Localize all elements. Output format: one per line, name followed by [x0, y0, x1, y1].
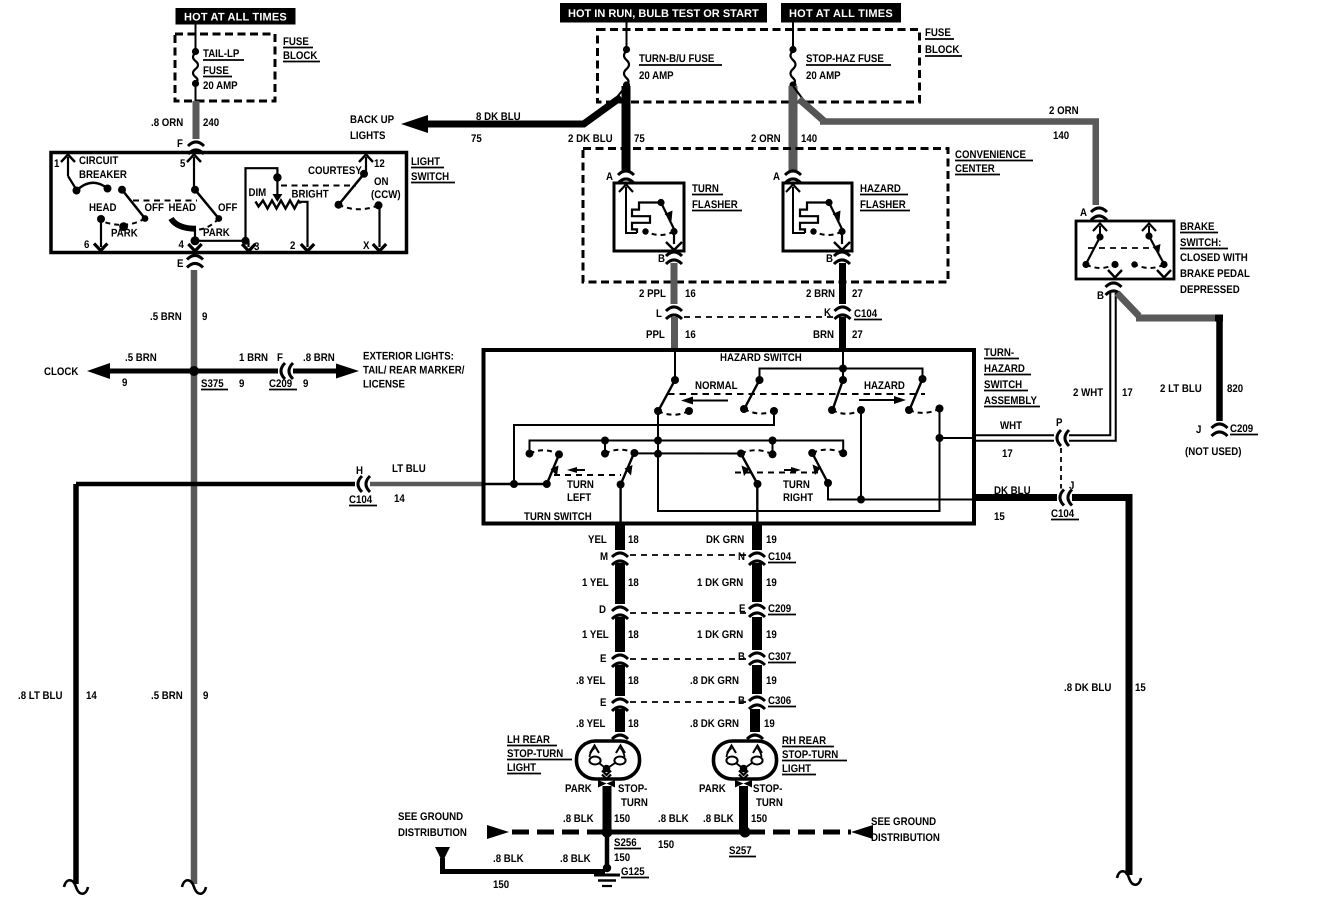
label TURN-HAZARD SWITCH ASSEMBLY [984, 347, 1040, 407]
wire .8 BLK 150 RH lamp to S257 [703, 786, 767, 830]
svg-text:.8 DK BLU: .8 DK BLU [1064, 682, 1111, 694]
wire top contact bus (S2-S3-S4) [760, 369, 923, 381]
pin 3 arrow [242, 241, 259, 253]
svg-text:TURN SWITCH: TURN SWITCH [524, 511, 592, 523]
svg-text:DK GRN: DK GRN [706, 534, 744, 546]
dashed link D-E [630, 612, 747, 614]
wire contact bus y440 [530, 441, 844, 454]
fuse STOP-HAZ FUSE 20 AMP [789, 46, 891, 89]
pin X arrow [363, 240, 386, 252]
svg-text:18: 18 [628, 629, 639, 641]
splice S375 junction [189, 366, 199, 376]
turn flasher U1 [614, 183, 684, 251]
label TURN RIGHT with arrow [735, 467, 818, 504]
svg-text:A: A [606, 171, 613, 183]
svg-text:.8 BLK: .8 BLK [560, 853, 591, 865]
svg-text:LIGHT: LIGHT [411, 156, 440, 168]
svg-text:2 ORN: 2 ORN [751, 133, 781, 145]
wire S1 pivot down and cross feed [658, 409, 940, 512]
svg-text:C209: C209 [269, 378, 292, 390]
svg-text:RH REAR: RH REAR [782, 735, 826, 747]
svg-text:STOP-HAZ FUSE: STOP-HAZ FUSE [806, 53, 884, 65]
svg-text:TURN: TURN [692, 183, 719, 195]
connector A (hazard flasher) [773, 171, 801, 183]
svg-text:19: 19 [766, 629, 777, 641]
svg-text:75: 75 [634, 133, 645, 145]
svg-text:FUSE: FUSE [203, 65, 229, 77]
LH rear stop-turn light [577, 741, 640, 779]
fuse TURN-B/U FUSE 20 AMP [623, 46, 722, 89]
convenience center dashed box [583, 149, 1033, 283]
svg-text:OFF: OFF [218, 202, 238, 214]
clock feed wire with arrows [87, 363, 359, 379]
ground G125 [594, 864, 649, 886]
ground bus solid middle [604, 813, 746, 851]
svg-text:TURN: TURN [756, 797, 783, 809]
svg-text:FUSE: FUSE [283, 36, 309, 48]
svg-text:PARK: PARK [111, 228, 138, 240]
svg-text:9: 9 [239, 378, 244, 390]
svg-text:TURN: TURN [621, 797, 648, 809]
svg-text:P: P [1056, 417, 1062, 429]
svg-text:.8 BRN: .8 BRN [303, 352, 335, 364]
wire break (tilde) .8 LT BLU [64, 880, 88, 894]
svg-text:HAZARD SWITCH: HAZARD SWITCH [720, 352, 802, 364]
wire 1 DK GRN 19 to connector E [697, 563, 777, 605]
svg-text:1 DK GRN: 1 DK GRN [697, 577, 743, 589]
svg-text:A: A [773, 171, 780, 183]
svg-text:2 DK BLU: 2 DK BLU [568, 133, 613, 145]
svg-text:LIGHTS: LIGHTS [350, 130, 386, 142]
connector B C306 [738, 694, 796, 709]
svg-text:27: 27 [852, 288, 863, 300]
turn switch TR-B [808, 449, 847, 487]
wire 2 LT BLU 820 [1117, 293, 1243, 423]
svg-text:RIGHT: RIGHT [783, 492, 813, 504]
ground branch arrow (down triangle) [435, 847, 605, 891]
svg-text:CENTER: CENTER [955, 163, 995, 175]
svg-text:C104: C104 [768, 551, 792, 563]
svg-text:M: M [600, 551, 608, 563]
svg-text:HEAD: HEAD [169, 202, 196, 214]
svg-text:D: D [599, 604, 606, 616]
svg-text:PARK: PARK [203, 227, 230, 239]
hazard switch S1 normal-left [654, 376, 693, 415]
riser TR-A right contact [772, 441, 774, 455]
pin 6 arrow [84, 219, 107, 251]
svg-text:HOT IN RUN, BULB TEST OR START: HOT IN RUN, BULB TEST OR START [568, 8, 759, 20]
wire .8 DK GRN 19 to connector B (C306) [690, 665, 777, 697]
svg-text:17: 17 [1002, 448, 1013, 460]
svg-text:ON: ON [374, 176, 389, 188]
svg-text:9: 9 [203, 690, 208, 702]
lamp connector RH [747, 732, 763, 740]
svg-text:BLOCK: BLOCK [283, 50, 317, 62]
ground bus dashed left [487, 825, 604, 839]
hazard flasher U2 [783, 183, 852, 251]
wire .8 BLK 150 LH lamp to S256 [563, 786, 630, 830]
svg-text:EXTERIOR LIGHTS:: EXTERIOR LIGHTS: [363, 351, 454, 363]
svg-text:FUSE: FUSE [925, 27, 951, 39]
brake switch box [1076, 221, 1174, 279]
svg-text:TURN: TURN [783, 479, 810, 491]
connector M [600, 550, 629, 565]
svg-text:DISTRIBUTION: DISTRIBUTION [398, 827, 467, 839]
svg-text:1 YEL: 1 YEL [582, 577, 609, 589]
svg-text:.8 LT BLU: .8 LT BLU [18, 690, 63, 702]
wire header to stop-haz fuse [792, 23, 794, 49]
wire 2 PPL 16 (grey) [639, 263, 696, 305]
pin 5 arrow [180, 155, 201, 191]
svg-text:18: 18 [628, 534, 639, 546]
fuse block (left) dashed box [175, 34, 275, 101]
svg-text:ASSEMBLY: ASSEMBLY [984, 395, 1037, 407]
svg-text:19: 19 [764, 718, 775, 730]
svg-text:27: 27 [852, 329, 863, 341]
svg-text:SEE GROUND: SEE GROUND [398, 811, 463, 823]
wire from header to fuse [195, 25, 197, 51]
svg-text:F: F [277, 352, 283, 364]
svg-text:2 PPL: 2 PPL [639, 288, 666, 300]
svg-text:1 BRN: 1 BRN [239, 352, 268, 364]
fuse TAIL-LP FUSE 20 AMP [192, 48, 244, 101]
connector P [1054, 417, 1069, 447]
wire 2 BRN 27 [806, 263, 863, 305]
svg-text:9: 9 [303, 378, 308, 390]
svg-text:PARK: PARK [565, 783, 592, 795]
svg-text:14: 14 [86, 690, 98, 702]
circuit breaker [68, 155, 127, 195]
svg-text:C209: C209 [1230, 423, 1253, 435]
svg-text:PPL: PPL [646, 329, 665, 341]
connector J C104 [1051, 480, 1079, 520]
node BRN junction [839, 365, 847, 373]
wire pin3 to dimmer wiper [246, 168, 278, 241]
dashed link E-B (C307) [630, 658, 747, 660]
wire S2 alt to turn-left feed [514, 411, 774, 484]
svg-text:FLASHER: FLASHER [692, 199, 738, 211]
svg-text:.8 ORN: .8 ORN [151, 117, 183, 129]
connector D [599, 604, 629, 619]
label BRAKE SWITCH [1180, 221, 1250, 296]
wire .5 BRN 9 vertical (grey) [150, 270, 208, 884]
svg-text:C307: C307 [768, 651, 791, 663]
exterior lights label [363, 351, 464, 391]
wire 1 DK GRN 19 to connector B (C307) [697, 617, 777, 653]
svg-text:9: 9 [202, 311, 207, 323]
svg-text:DK BLU: DK BLU [994, 485, 1031, 497]
svg-text:S375: S375 [201, 378, 224, 390]
svg-text:150: 150 [658, 839, 674, 851]
svg-text:HOT AT ALL TIMES: HOT AT ALL TIMES [789, 8, 893, 20]
dashed link P-J [1060, 448, 1062, 489]
wire YEL from TL-B pivot [619, 485, 621, 523]
svg-text:E: E [600, 697, 606, 709]
wire DK GRN 19 to connector N [706, 523, 777, 552]
svg-text:16: 16 [685, 329, 696, 341]
label HAZARD FLASHER [860, 183, 910, 211]
svg-text:BRAKE: BRAKE [1180, 221, 1214, 233]
wire .8 YEL 18 to LH lamp [576, 709, 639, 734]
ground bus dashed right [748, 825, 873, 839]
node WHT tee [936, 434, 944, 442]
brake switch connector B [1097, 283, 1122, 302]
wire 1 YEL 18 to connector E2 [582, 617, 639, 653]
wire .8 YEL 18 to connector E3 [576, 665, 639, 697]
svg-text:A: A [1080, 207, 1087, 219]
wire 2 WHT 17 (hollow) [975, 293, 1133, 460]
svg-text:.8 BLK: .8 BLK [493, 853, 524, 865]
svg-text:LEFT: LEFT [567, 492, 591, 504]
svg-text:LH REAR: LH REAR [507, 734, 550, 746]
label TURN FLASHER [692, 183, 742, 211]
svg-text:C306: C306 [768, 695, 791, 707]
wire .8 LT BLU 14 vertical [18, 484, 98, 884]
svg-text:WHT: WHT [1000, 420, 1022, 432]
svg-text:B: B [738, 651, 745, 663]
label see ground distribution (right) [871, 816, 940, 844]
turn switch TL-B [601, 449, 638, 489]
svg-text:.8 BLK: .8 BLK [658, 813, 689, 825]
turn-hazard switch assembly box [484, 350, 975, 524]
svg-text:E: E [177, 258, 183, 270]
svg-text:C209: C209 [768, 603, 791, 615]
label NORMAL with arrow [668, 380, 925, 405]
svg-text:19: 19 [766, 534, 777, 546]
courtesy switch arm [308, 165, 401, 209]
header box HOT IN RUN, BULB TEST OR START [560, 3, 767, 23]
svg-text:STOP-TURN: STOP-TURN [782, 749, 838, 761]
svg-text:18: 18 [628, 718, 639, 730]
pin 2 arrow [290, 240, 314, 252]
riser TL-B left contact [604, 441, 606, 454]
svg-text:8 DK BLU: 8 DK BLU [476, 111, 521, 123]
svg-text:12: 12 [374, 158, 385, 170]
svg-text:CIRCUIT: CIRCUIT [79, 155, 119, 167]
svg-text:LICENSE: LICENSE [363, 379, 405, 391]
svg-text:DEPRESSED: DEPRESSED [1180, 284, 1240, 296]
wire 1 YEL 18 to connector D [582, 563, 639, 605]
svg-text:BRAKE PEDAL: BRAKE PEDAL [1180, 268, 1250, 280]
svg-text:C104: C104 [349, 494, 373, 506]
wire WHT to box edge [940, 437, 975, 439]
wire header to turn-b/u fuse [626, 23, 628, 49]
connector E (C306 left) [600, 696, 629, 711]
node bus junctions [601, 437, 777, 458]
wire PPL 16 (grey) [646, 317, 696, 348]
svg-text:140: 140 [801, 133, 817, 145]
dashed link E-B (C306) [630, 701, 747, 703]
svg-text:2 BRN: 2 BRN [806, 288, 835, 300]
svg-text:150: 150 [614, 852, 630, 864]
svg-text:LIGHT: LIGHT [782, 763, 811, 775]
wire DK GRN from TR-A pivot [756, 484, 758, 522]
lamp connector LH [612, 732, 628, 740]
svg-text:150: 150 [751, 813, 767, 825]
svg-text:BLOCK: BLOCK [925, 44, 959, 56]
connector B (hazard flasher) [826, 252, 850, 265]
brake switch connector A [1080, 205, 1108, 220]
pin 1 arrow [54, 155, 75, 177]
svg-text:F: F [177, 138, 183, 150]
svg-text:STOP-: STOP- [618, 783, 648, 795]
connector E (light switch) [177, 256, 203, 271]
svg-text:COURTESY: COURTESY [308, 165, 362, 177]
label FUSE BLOCK (middle) [925, 27, 962, 56]
svg-text:16: 16 [685, 288, 696, 300]
svg-text:SWITCH:: SWITCH: [1180, 237, 1221, 249]
svg-text:S257: S257 [729, 845, 752, 857]
svg-text:TURN: TURN [567, 479, 594, 491]
dimmer wiper [272, 173, 282, 202]
wire break (tilde) DK BLU [1117, 871, 1141, 885]
svg-text:18: 18 [628, 577, 639, 589]
svg-text:HOT AT ALL TIMES: HOT AT ALL TIMES [184, 12, 287, 24]
svg-text:N: N [738, 551, 745, 563]
svg-text:14: 14 [394, 493, 406, 505]
label HAZARD with arrow [859, 380, 906, 404]
wire break (tilde) .5 BRN [182, 880, 206, 894]
svg-text:.8 YEL: .8 YEL [576, 675, 606, 687]
node LT BLU junction [510, 480, 518, 488]
connector F (light switch) [177, 138, 205, 154]
connector K C104 [824, 304, 882, 320]
svg-text:.8 YEL: .8 YEL [576, 718, 606, 730]
wire .8 DK GRN 19 to RH lamp [690, 709, 775, 734]
svg-text:4: 4 [179, 239, 185, 251]
svg-text:HEAD: HEAD [89, 202, 116, 214]
back up lights arrow [350, 86, 626, 145]
svg-text:G125: G125 [621, 866, 645, 878]
svg-text:S256: S256 [614, 837, 637, 849]
svg-text:20 AMP: 20 AMP [639, 70, 674, 82]
hazard switch S4 hazard-right [905, 375, 944, 414]
connector F C209 on clock line [278, 362, 293, 380]
svg-text:HAZARD: HAZARD [864, 380, 905, 392]
pin 4 junction and arrow [179, 236, 202, 251]
connector A (turn flasher) [606, 171, 634, 183]
LH lamp output connector (bowtie) [565, 780, 648, 809]
svg-text:15: 15 [994, 511, 1005, 523]
wire YEL 18 to connector M [588, 523, 639, 552]
svg-text:820: 820 [1227, 383, 1243, 395]
mech linkage dashes A-B [133, 200, 197, 202]
svg-text:HAZARD: HAZARD [984, 363, 1025, 375]
wire .8 ORN 240 (grey) [151, 101, 219, 142]
svg-text:HAZARD: HAZARD [860, 183, 901, 195]
svg-text:YEL: YEL [588, 534, 607, 546]
connector H C104 [349, 465, 377, 506]
svg-text:SWITCH: SWITCH [984, 379, 1022, 391]
svg-text:(NOT USED): (NOT USED) [1185, 446, 1242, 458]
connector N C104 [738, 550, 796, 565]
svg-text:LT BLU: LT BLU [392, 463, 426, 475]
svg-text:B: B [1097, 290, 1104, 302]
svg-text:.8 DK GRN: .8 DK GRN [690, 718, 739, 730]
svg-text:2 LT BLU: 2 LT BLU [1160, 383, 1202, 395]
wire LT BLU internal [484, 483, 547, 485]
pin 12 arrow [359, 155, 385, 173]
svg-text:140: 140 [1053, 130, 1069, 142]
svg-text:.5 BRN: .5 BRN [151, 690, 183, 702]
svg-text:SWITCH: SWITCH [411, 171, 449, 183]
label FUSE BLOCK (left) [283, 36, 320, 62]
node DK BLU junction [857, 496, 865, 504]
svg-text:BACK UP: BACK UP [350, 114, 394, 126]
svg-text:K: K [824, 307, 831, 319]
wire LT BLU 14 horizontal [76, 463, 483, 505]
wire PPL into assembly [674, 352, 676, 380]
connector B C307 [738, 650, 796, 665]
dashed link M-N [630, 554, 747, 556]
svg-text:1 YEL: 1 YEL [582, 629, 609, 641]
svg-text:75: 75 [471, 133, 482, 145]
svg-text:5: 5 [180, 158, 185, 170]
switch arm A (head/off/park) [89, 186, 164, 240]
svg-text:.5 BRN: .5 BRN [125, 352, 157, 364]
wire courtesy to pin X [378, 205, 380, 247]
connector L [656, 304, 683, 320]
svg-text:CLOCK: CLOCK [44, 366, 78, 378]
wire rheostat to pin 2 [301, 202, 308, 247]
svg-text:NORMAL: NORMAL [695, 380, 738, 392]
wire 2 ORN 140 to brake switch (grey) [799, 99, 1096, 208]
svg-text:20 AMP: 20 AMP [203, 80, 238, 92]
svg-text:20 AMP: 20 AMP [806, 70, 841, 82]
dashed link L-K [684, 316, 833, 318]
wire BRN into assembly [842, 352, 844, 380]
svg-text:.8 BLK: .8 BLK [563, 813, 594, 825]
turn switch TL-A [526, 450, 564, 488]
svg-text:C104: C104 [1051, 508, 1075, 520]
light switch box [51, 153, 455, 253]
svg-text:PARK: PARK [699, 783, 726, 795]
svg-text:B: B [826, 253, 833, 265]
clock line labels [44, 352, 335, 390]
svg-text:6: 6 [84, 239, 89, 251]
RH lamp output connector (bowtie) [699, 780, 783, 809]
svg-text:E: E [600, 653, 606, 665]
header box HOT AT ALL TIMES (middle) [781, 3, 901, 23]
wire WHT 17 out (hollow continues) [0, 0, 1, 1]
connector E C209 [739, 602, 796, 617]
svg-text:19: 19 [766, 675, 777, 687]
connector E (C307 left) [600, 652, 629, 667]
svg-text:17: 17 [1122, 387, 1133, 399]
mech linkage dashes dimmer-courtesy [281, 185, 356, 187]
svg-text:C104: C104 [854, 308, 878, 320]
svg-text:(CCW): (CCW) [371, 189, 401, 201]
hazard switch S3 hazard-left [828, 376, 865, 414]
label RH REAR STOP-TURN LIGHT [782, 735, 847, 775]
svg-text:.5 BRN: .5 BRN [150, 311, 182, 323]
svg-text:3: 3 [254, 241, 259, 253]
svg-text:240: 240 [203, 117, 219, 129]
svg-text:FLASHER: FLASHER [860, 199, 906, 211]
connector B (turn flasher) [658, 252, 682, 265]
label LH REAR STOP-TURN LIGHT [507, 734, 572, 774]
svg-text:2 ORN: 2 ORN [1049, 105, 1079, 117]
label TURN LEFT with arrow [554, 467, 621, 504]
wire DK BLU 15 out to corner and down [974, 485, 1146, 875]
svg-text:L: L [656, 308, 662, 320]
svg-text:CLOSED WITH: CLOSED WITH [1180, 252, 1248, 264]
wire S3 alt riser [860, 410, 862, 500]
splice S257 [729, 827, 756, 858]
turn switch TR-A [737, 450, 777, 489]
svg-text:150: 150 [493, 879, 509, 891]
svg-text:LIGHT: LIGHT [507, 762, 536, 774]
